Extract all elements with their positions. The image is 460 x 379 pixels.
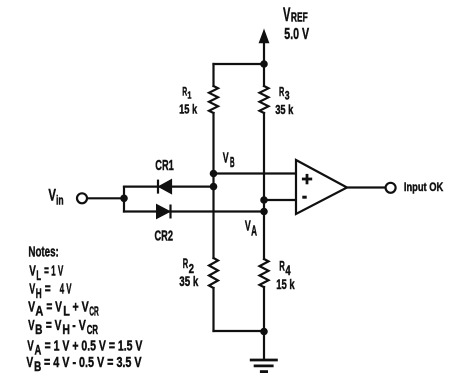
svg-text:V: V <box>223 150 229 166</box>
svg-text:= V: = V <box>46 318 62 334</box>
resistor R3 <box>260 86 269 113</box>
label R2 <box>183 256 194 276</box>
label VA <box>245 218 257 240</box>
svg-text:=: = <box>45 282 51 298</box>
resistor R1 <box>209 86 218 113</box>
terminal output circle <box>386 183 396 193</box>
op-amp U1 comparator triangle <box>296 160 347 214</box>
svg-text:R: R <box>279 85 284 99</box>
svg-text:in: in <box>56 192 64 207</box>
label VB <box>223 150 235 171</box>
diode CR1 <box>158 179 172 193</box>
svg-text:4 V: 4 V <box>60 282 72 298</box>
note line VA = VL + VCR <box>28 300 99 319</box>
svg-text:Notes:: Notes: <box>28 243 58 260</box>
svg-text:A: A <box>251 223 257 239</box>
node VA dot CR2 <box>260 208 268 216</box>
wire bottom rail <box>214 330 265 332</box>
wire left branch upper <box>212 64 214 86</box>
svg-text:V: V <box>283 5 291 26</box>
wire right branch upper <box>263 64 265 86</box>
wire Vin to junction <box>88 197 125 199</box>
svg-text:35 k: 35 k <box>179 273 198 289</box>
svg-text:35 k: 35 k <box>275 103 293 117</box>
node VA dot to minus wire <box>260 196 268 204</box>
wire VB to plus input <box>214 172 297 174</box>
svg-text:= 4 V - 0.5 V = 3.5 V: = 4 V - 0.5 V = 3.5 V <box>44 355 142 371</box>
svg-text:A: A <box>35 304 43 319</box>
wire right branch middle <box>263 113 265 259</box>
wire ground stem <box>263 332 265 360</box>
note line VB = VH - VCR <box>28 318 98 337</box>
wire CR2 branch <box>124 210 264 212</box>
Vref arrowhead <box>259 30 268 43</box>
resistor R2 <box>209 258 218 288</box>
wire input splitter vertical <box>123 187 125 212</box>
svg-text:L: L <box>63 304 70 319</box>
svg-text:REF: REF <box>291 11 308 25</box>
svg-text:V: V <box>26 355 33 371</box>
svg-text:H: H <box>36 286 42 301</box>
svg-text:V: V <box>28 300 35 316</box>
wire right branch lower <box>263 287 265 332</box>
label VREF <box>283 5 308 26</box>
op-amp minus sign <box>302 196 306 199</box>
svg-text:5.0 V: 5.0 V <box>284 26 309 43</box>
svg-text:B: B <box>34 359 41 374</box>
svg-text:15 k: 15 k <box>276 276 295 292</box>
svg-text:= V: = V <box>46 300 62 316</box>
svg-text:V: V <box>28 318 35 334</box>
terminal Vin circle <box>77 193 87 203</box>
note line VH = 4 V <box>29 282 72 301</box>
svg-text:+ V: + V <box>73 300 89 316</box>
svg-text:V: V <box>27 339 34 355</box>
svg-text:= 1 V + 0.5 V = 1.5 V: = 1 V + 0.5 V = 1.5 V <box>45 339 143 355</box>
node VB dot CR1 <box>210 183 218 191</box>
note line VA = 1 V + 0.5 V = 1.5 V <box>27 339 142 358</box>
node junction dot Vin split <box>120 195 128 203</box>
node bottom rail dot <box>260 328 268 336</box>
note line VL = 1 V <box>29 264 63 284</box>
svg-text:A: A <box>35 343 42 358</box>
note line VB = 4 V - 0.5 V = 3.5 V <box>26 355 141 374</box>
wire left branch middle <box>212 113 214 258</box>
svg-text:B: B <box>35 322 42 337</box>
svg-text:3: 3 <box>285 89 290 103</box>
svg-text:V: V <box>48 186 56 205</box>
label R3 <box>279 85 290 103</box>
svg-text:Input OK: Input OK <box>404 180 443 194</box>
svg-text:CR: CR <box>87 322 99 337</box>
op-amp plus sign <box>302 174 312 184</box>
diode CR2 <box>157 205 171 219</box>
wire VA to minus input <box>264 199 296 201</box>
svg-text:H: H <box>62 322 70 337</box>
svg-text:= 1 V: = 1 V <box>44 264 63 280</box>
svg-text:15 k: 15 k <box>179 101 198 116</box>
svg-text:CR1: CR1 <box>155 158 174 174</box>
svg-text:V: V <box>29 264 36 280</box>
svg-text:1: 1 <box>187 91 191 102</box>
resistor R4 <box>260 259 269 287</box>
wire left branch lower <box>212 288 214 331</box>
svg-text:CR: CR <box>89 304 99 319</box>
node junction dot top rail <box>260 60 268 68</box>
svg-text:R: R <box>279 259 285 274</box>
wire comparator output <box>347 186 385 188</box>
svg-text:B: B <box>230 155 235 171</box>
svg-text:V: V <box>29 282 35 298</box>
wire top rail <box>214 63 265 65</box>
svg-text:- V: - V <box>72 318 86 334</box>
node VB dot to plus wire <box>210 170 218 178</box>
label R4 <box>279 259 291 279</box>
wire Vref stem <box>263 42 265 64</box>
label Vin <box>48 186 63 208</box>
svg-text:L: L <box>36 268 41 283</box>
ground <box>250 360 278 372</box>
svg-text:R: R <box>183 256 189 271</box>
wire CR1 branch <box>124 186 214 188</box>
label R1 <box>182 84 191 101</box>
svg-text:CR2: CR2 <box>155 229 174 245</box>
